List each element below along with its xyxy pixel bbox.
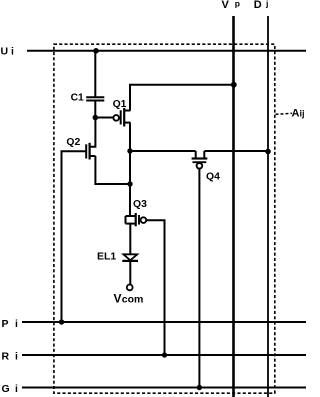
leader line to label Aij (276, 113, 293, 114)
wire D_j bus line (267, 16, 269, 397)
label P_i (2, 318, 19, 330)
svg-text:j: j (265, 0, 268, 9)
wire node A to Q1 gate (95, 117, 113, 119)
organic EL element EL1 (diode) (122, 254, 138, 261)
svg-text:D: D (254, 0, 262, 11)
wire EL1 to Vcom terminal (129, 261, 131, 284)
label D_j (254, 0, 269, 11)
transistor Q4 (p-channel, gate bubble, horizontal) (192, 151, 208, 169)
wire Q3 gate to R_i (146, 220, 164, 355)
label G_i (2, 383, 19, 395)
node on D_j: Q4 drain connection (265, 149, 271, 155)
label V_p (222, 0, 241, 11)
capacitor C1 (86, 97, 104, 100)
svg-text:p: p (235, 0, 240, 8)
wire Q4 drain to D_j (204, 150, 268, 152)
label R_i (2, 350, 19, 362)
transistor Q1 (p-channel, gate bubble) (113, 108, 130, 127)
svg-text:V: V (114, 292, 122, 306)
wire U_i rail (27, 50, 306, 52)
wire Q4 gate down to G_i (198, 168, 200, 387)
wire Q2 source to node C (95, 156, 130, 184)
wire node B to Q4 source (130, 150, 196, 152)
wire Q1 source down the storage node line to Q3 (129, 123, 131, 216)
svg-text:i: i (15, 350, 18, 362)
node A: C1 / Q1 gate / Q2 drain junction (93, 115, 99, 121)
svg-text:ij: ij (300, 109, 305, 119)
node on R_i: Q3 gate connection (162, 352, 167, 357)
svg-text:i: i (11, 45, 14, 57)
wire C1 to node A (94, 101, 96, 118)
svg-text:C1: C1 (71, 92, 84, 103)
wire Q3 source to EL1 (129, 224, 131, 254)
node on V_p: Q1 drain connection (231, 82, 237, 88)
wire R_i rail (22, 354, 306, 356)
svg-text:G: G (2, 383, 10, 395)
label Aij (292, 108, 305, 120)
svg-text:Q3: Q3 (133, 199, 147, 210)
wire Q2 gate to P_i (62, 151, 87, 322)
wire P_i rail (22, 321, 306, 323)
wire V_p bus line (232, 16, 235, 397)
svg-text:Q1: Q1 (113, 99, 127, 110)
wire node A down to Q2 drain (90, 118, 96, 147)
transistor Q3 (p-channel, gate bubble on right) (126, 213, 147, 226)
svg-text:i: i (15, 383, 18, 395)
terminal Vcom (open circle) (127, 285, 133, 291)
label Vcom (114, 292, 144, 306)
wire Q1 drain up and over to V_p (130, 85, 234, 111)
pixel cell boundary Aij (dashed box) (54, 44, 275, 393)
wire U_i to C1 (94, 51, 96, 98)
svg-text:Q2: Q2 (66, 137, 80, 148)
svg-text:i: i (15, 318, 18, 330)
svg-text:R: R (2, 350, 10, 362)
wire G_i rail (22, 387, 306, 389)
label U_i (1, 45, 15, 57)
node B: junction to Q4 (127, 148, 132, 153)
svg-text:U: U (1, 45, 9, 57)
svg-text:A: A (292, 108, 300, 120)
node C: Q2 source / storage line junction (127, 181, 132, 186)
node on P_i: Q2 gate connection (59, 319, 64, 324)
node on G_i: Q4 gate connection (197, 385, 202, 390)
svg-text:com: com (122, 294, 144, 306)
svg-text:P: P (2, 318, 9, 330)
transistor Q2 (n-channel, gate left) (86, 143, 95, 160)
svg-text:V: V (222, 0, 230, 11)
svg-text:EL1: EL1 (97, 251, 116, 263)
svg-text:Q4: Q4 (206, 171, 220, 182)
node on U_i at C1 branch (93, 48, 99, 54)
